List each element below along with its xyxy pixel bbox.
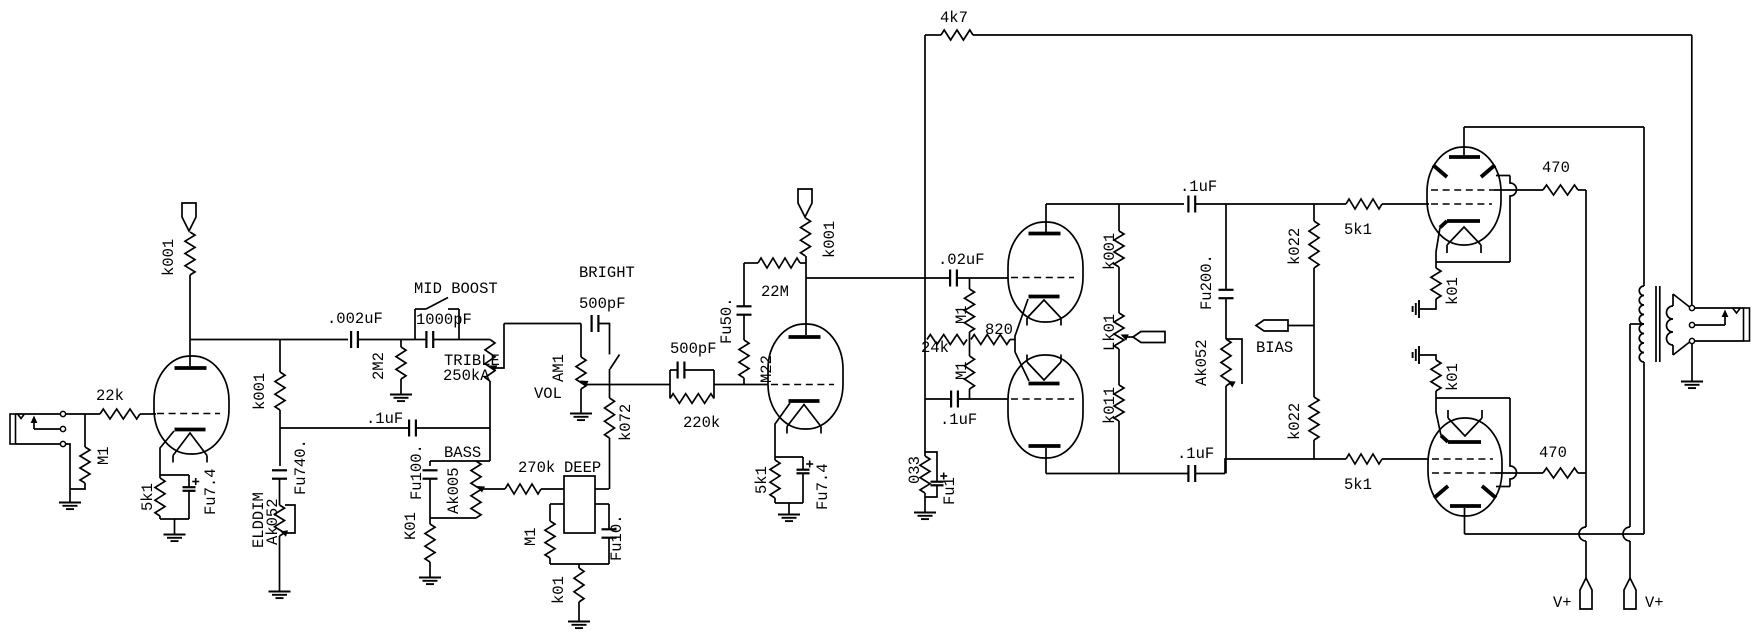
wire VOL to ground (580, 389, 582, 413)
V5 screen lead (1495, 472, 1543, 474)
beam plates (1434, 486, 1448, 498)
cathode bar (1029, 382, 1060, 386)
control grid dashed (1432, 458, 1493, 460)
resistor 1k5 V2 (774, 457, 776, 460)
potentiometer VOL 1MA (580, 324, 582, 358)
svg-text:5k1: 5k1 (753, 466, 771, 494)
svg-text:2M2: 2M2 (370, 352, 388, 380)
wire 100k slope node (279, 340, 281, 373)
plate bar (1029, 232, 1061, 236)
V2 cathode network top wire (775, 456, 803, 458)
svg-text:BIAS: BIAS (1256, 339, 1293, 357)
wire bass node (430, 460, 490, 462)
resistor 5k1 top grid stopper (1346, 199, 1382, 209)
wire 10k hook (1420, 299, 1436, 309)
OT core (1655, 286, 1657, 362)
resistor 220k upper (1313, 204, 1315, 221)
svg-text:033: 033 (906, 456, 924, 484)
resistor 270k deep feed (505, 484, 541, 494)
wire 270k to DEEP box (541, 488, 564, 490)
wire combo to V2 grid (714, 384, 768, 386)
svg-text:.1uF: .1uF (1177, 445, 1214, 463)
svg-text:k001: k001 (821, 221, 839, 258)
svg-text:Fu10.: Fu10. (608, 514, 626, 561)
resistor 820 tail (971, 335, 1010, 345)
capacitor 1uF tail bypass (925, 452, 937, 482)
svg-text:V+: V+ (1645, 594, 1664, 612)
power tube V4 (1427, 147, 1501, 245)
V5 plate lead (1464, 508, 1466, 534)
capacitor 4.7uF V1 cathode bypass (188, 475, 190, 487)
capacitor .05uF (743, 315, 745, 340)
V3b cathode lead (1015, 352, 1029, 381)
screen grid dashed (1432, 472, 1495, 474)
V2 plate lead (805, 256, 807, 335)
svg-text:1000pF: 1000pF (416, 311, 472, 329)
triode V3b phase inverter bottom (1008, 355, 1083, 458)
svg-text:k011: k011 (1101, 387, 1119, 424)
wire 1000pF to treble (456, 339, 490, 341)
svg-text:M1: M1 (953, 361, 971, 380)
plate bar (1449, 155, 1480, 159)
feedback wire to output jack (973, 34, 1692, 36)
wire 5k1 to V5 grid (1382, 458, 1429, 460)
V+ connector screens (1580, 578, 1592, 609)
V2 cathode bottom wire (774, 498, 776, 503)
svg-text:k022: k022 (1286, 228, 1304, 265)
resistor 270k mixer (605, 398, 615, 438)
wire 330 to ground (924, 493, 926, 512)
grid dashed line (157, 413, 220, 415)
triode V1 (154, 356, 229, 454)
capacitor 500pF bright (590, 315, 592, 332)
wire bias chain top (1225, 204, 1227, 289)
resistor 330 tail bottom (920, 456, 930, 493)
svg-text:DEEP: DEEP (564, 459, 601, 477)
resistor 1k5 V1 cathode (155, 478, 165, 516)
svg-text:Fu740.: Fu740. (292, 439, 310, 495)
cathode bar (1447, 219, 1480, 223)
svg-text:k001: k001 (1101, 233, 1119, 270)
heater filament (1027, 362, 1061, 380)
capacitor .002uF coupling (350, 331, 352, 348)
resistor 1M deep (549, 504, 551, 521)
wire 270k to DEEP (609, 438, 611, 489)
resistor 110k PI plate bottom (1114, 385, 1124, 421)
resistor 100k V1 plate load (185, 232, 195, 275)
capacitor .01uF deep (608, 504, 610, 529)
wire .02uF to V3a grid (957, 277, 1008, 279)
svg-text:K01: K01 (402, 512, 420, 540)
svg-text:4k7: 4k7 (940, 9, 968, 27)
resistor 220k parallel bottom (670, 394, 714, 404)
OT center tap (1630, 323, 1644, 325)
V3a plate lead (1045, 204, 1047, 232)
V1 plate lead (189, 275, 191, 366)
input jack J1 plug body (10, 414, 16, 444)
feedback bus vertical (924, 35, 926, 456)
V5 cathode lead (1436, 398, 1441, 436)
svg-text:Lk01: Lk01 (1101, 314, 1119, 351)
resistor 1M PI bottom (969, 340, 971, 357)
OT primary top lead (1643, 127, 1645, 286)
resistor 10k deep (578, 564, 580, 568)
wire MIDDLE to ground (279, 536, 281, 591)
heater filament (787, 405, 821, 427)
V1 cathode network top wire (160, 474, 189, 476)
V1 cathode network bottom wire (159, 516, 161, 519)
wire .1uF line PI (925, 398, 951, 400)
wire to .047uF (279, 428, 281, 466)
switch MID BOOST (414, 309, 416, 340)
wire V2 plate output (806, 277, 949, 279)
svg-text:Fu50.: Fu50. (718, 297, 736, 344)
resistor 2M2 to ground (400, 340, 402, 348)
control grid dashed (1431, 203, 1492, 205)
resistor 470 screen top (1543, 185, 1578, 195)
DEEP switch box (564, 476, 595, 533)
svg-text:Ak005: Ak005 (445, 467, 463, 514)
ground MIDDLE (269, 591, 291, 593)
V3b plate lead (1045, 448, 1047, 474)
potentiometer 250kA bias (1221, 339, 1231, 386)
svg-text:Fu200.: Fu200. (1198, 254, 1216, 310)
secondary to jack top (1673, 294, 1690, 307)
potentiometer BASS 500kA (471, 461, 481, 518)
hop over screen line (1510, 176, 1517, 263)
svg-text:500pF: 500pF (579, 295, 626, 313)
V4 beam plate tie (1436, 261, 1510, 263)
input jack tip notch (18, 415, 24, 419)
wire 5k1 to V4 grid (1382, 203, 1429, 205)
grid dashed line (771, 384, 834, 386)
wire DEEP lower-right to .01uF (595, 503, 609, 505)
TREBLE wiper (489, 365, 497, 371)
svg-text:M1: M1 (522, 527, 540, 546)
svg-text:5k1: 5k1 (1344, 476, 1372, 494)
wire bright switch to 270k (609, 385, 611, 399)
triode V2 (768, 324, 843, 429)
wire 10k hook (1420, 355, 1436, 360)
V4 plate line to OT (1464, 126, 1644, 128)
svg-text:5k1: 5k1 (139, 483, 157, 511)
resistor 22M vertical (739, 340, 749, 378)
svg-text:k022: k022 (1286, 403, 1304, 440)
plate bar (1450, 504, 1481, 508)
resistor 4k7 feedback (941, 30, 973, 40)
svg-text:VOL: VOL (534, 385, 562, 403)
beam plates (1433, 165, 1447, 177)
input jack tip arrow (31, 416, 38, 424)
OT secondary winding (1672, 294, 1674, 306)
PI top rail (1046, 203, 1184, 205)
resistor 1M PI top (969, 278, 971, 289)
ground tail (914, 512, 936, 514)
svg-text:BRIGHT: BRIGHT (579, 264, 635, 282)
ground V2 cathode (788, 503, 790, 514)
capacitor .02uF PI input (949, 270, 951, 287)
wire DEEP lower-left to 1M (550, 503, 564, 505)
capacitor .1uF PI top output (1187, 196, 1189, 213)
ground output jack (1681, 381, 1703, 383)
wire bottom contact to ground (66, 444, 70, 502)
wire middle contact arrow (1695, 324, 1725, 326)
wire 22k to V1 grid (140, 413, 156, 415)
V+ connector plates (1624, 578, 1636, 609)
parallel right leg (713, 370, 715, 399)
heater filament (1447, 227, 1481, 245)
svg-text:k001: k001 (251, 373, 269, 410)
connector flag 10kL (1133, 332, 1165, 343)
svg-text:220k: 220k (683, 414, 720, 432)
wire treble wiper to VOL top (504, 323, 581, 325)
wire 100k to 10kL (1118, 267, 1120, 313)
ground 10K (419, 577, 441, 579)
heater filament (1448, 418, 1482, 436)
V5 plate line to OT (1465, 533, 1645, 535)
ground V5 cathode sideways (1418, 346, 1420, 364)
wire 100k to .1uF line (279, 410, 281, 428)
connector flag BIAS (1256, 320, 1288, 331)
V3a cathode lead (1015, 299, 1028, 352)
output jack contact circles (1689, 305, 1694, 310)
resistor 10k V4 cathode (1431, 268, 1441, 299)
svg-text:24k: 24k (921, 339, 949, 357)
svg-text:470: 470 (1542, 159, 1570, 177)
wire top contact to plug (1695, 307, 1744, 309)
OT primary bottom lead (1643, 362, 1645, 534)
svg-text:820: 820 (985, 321, 1013, 339)
power tube V5 (1428, 418, 1502, 516)
cathode bar (1448, 440, 1481, 444)
svg-text:500pF: 500pF (670, 340, 717, 358)
capacitor .047uF middle (272, 469, 287, 471)
svg-text:Fu7.4: Fu7.4 (814, 463, 832, 510)
V2 cathode lead (775, 403, 790, 457)
svg-text:.02uF: .02uF (938, 251, 985, 269)
grid dashed line (1011, 277, 1074, 279)
resistor 100k tone slope (275, 372, 285, 410)
VOL wiper (580, 381, 589, 388)
plate bar (1029, 444, 1061, 448)
grid dashed line (1011, 398, 1074, 400)
svg-text:.1uF: .1uF (366, 410, 403, 428)
input jack contact circles (60, 411, 65, 416)
wire bass bottom (430, 517, 476, 519)
wire 10kL to 110k (1118, 349, 1120, 385)
svg-text:Fu7.4: Fu7.4 (202, 468, 220, 515)
resistor 1M input grid leak (80, 447, 90, 483)
potentiometer TREBLE 250kA (485, 340, 495, 382)
wire TREBLE bottom to bass node (489, 381, 491, 461)
svg-text:MID BOOST: MID BOOST (414, 280, 498, 298)
wire 2M2 to ground (400, 379, 402, 394)
svg-text:M1: M1 (953, 305, 971, 324)
ground VOL (570, 413, 592, 415)
svg-text:5k1: 5k1 (1344, 221, 1372, 239)
ground 2M2 (390, 394, 412, 396)
ground V1 cathode (174, 519, 176, 534)
svg-text:470: 470 (1539, 444, 1567, 462)
wire .002uF to node A (358, 339, 415, 341)
svg-text:250kA: 250kA (443, 367, 490, 385)
10kL wiper (1121, 334, 1129, 340)
B+ connector flag V2 (798, 189, 812, 217)
svg-text:k01: k01 (1444, 277, 1462, 305)
capacitor .001uF bass slope (429, 461, 431, 466)
jog bottom rail (1225, 459, 1346, 474)
OT primary winding lower (1639, 324, 1644, 362)
svg-text:Fu100.: Fu100. (408, 444, 426, 500)
svg-text:.002uF: .002uF (327, 310, 383, 328)
capacitor .1uF PI bottom output (1187, 465, 1189, 482)
output jack tip notch (1733, 309, 1740, 314)
svg-text:k001: k001 (160, 239, 178, 276)
resistor 22k grid stopper (100, 409, 140, 419)
wire jack sleeve to bottom contact (16, 443, 61, 445)
capacitor 1000pF mid boost (415, 339, 427, 341)
resistor 10k V5 cathode (1431, 360, 1441, 391)
wire bottom contact to plug (1695, 340, 1744, 342)
svg-text:22k: 22k (96, 387, 124, 405)
output jack plug body (1744, 308, 1750, 341)
ground 10k deep (568, 621, 590, 623)
svg-text:.1uF: .1uF (1180, 178, 1217, 196)
resistor 470 screen bottom (1543, 468, 1578, 478)
resistor 22M horizontal (758, 258, 800, 268)
potentiometer MIDDLE 250kA (275, 505, 285, 536)
svg-text:k072: k072 (617, 404, 635, 441)
cathode bar (175, 428, 206, 432)
svg-text:k01: k01 (1444, 363, 1462, 391)
capacitor .1uF PI lower input (950, 391, 952, 408)
wire BIAS to divider (1288, 325, 1314, 327)
secondary to jack bottom (1673, 342, 1690, 355)
wire bias pot down (1225, 386, 1227, 474)
svg-text:BASS: BASS (444, 444, 481, 462)
parallel 500pF 220k left leg (669, 370, 671, 399)
resistor 10K (425, 524, 435, 562)
OT primary winding upper (1639, 286, 1644, 324)
screen supply rail (1585, 190, 1587, 527)
capacitor 4.7uF V2 (802, 457, 804, 470)
node junction 1M top (84, 414, 86, 447)
hop over screen line (1510, 398, 1517, 487)
V4 cathode lead (1436, 228, 1440, 269)
svg-text:k01: k01 (550, 576, 568, 604)
BASS wiper (477, 486, 486, 493)
svg-text:V+: V+ (1553, 594, 1572, 612)
resistor 5k1 bottom grid stopper (1346, 454, 1382, 464)
wire .1uF bass line (280, 427, 409, 429)
wire arrow to middle contact (34, 428, 60, 430)
capacitor .1uF bass (408, 420, 410, 437)
heater filament (173, 433, 207, 456)
svg-text:Fu1: Fu1 (941, 477, 959, 505)
V4 screen lead (1494, 189, 1543, 191)
wire top contact to grid node (66, 413, 100, 415)
V4 plate lead (1463, 127, 1465, 156)
output jack tip arrow (1722, 310, 1729, 318)
wire jack tip to top contact (16, 413, 61, 415)
triode V3a phase inverter top (1008, 222, 1083, 322)
PI bottom plate line (1046, 473, 1188, 475)
wire DEEP right to 270k vertical (595, 488, 609, 490)
svg-text:.1uF: .1uF (940, 411, 977, 429)
V5 beam plate tie (1436, 397, 1510, 399)
svg-text:270k: 270k (518, 459, 555, 477)
potentiometer 10kL balance (1114, 313, 1124, 349)
plate bar (789, 335, 821, 339)
capacitor 500pF parallel top (670, 369, 678, 371)
wire V1 plate node (190, 339, 348, 341)
screen grid dashed (1431, 189, 1494, 191)
switch BRIGHT (610, 355, 620, 370)
capacitor .002uF bias (1219, 289, 1234, 291)
svg-text:M1: M1 (95, 446, 113, 465)
V1 cathode lead (160, 431, 174, 475)
resistor 100k PI plate top (1118, 204, 1120, 231)
resistor 220k lower (1309, 397, 1319, 440)
cathode bar (789, 399, 820, 403)
B+ connector flag V1 (182, 203, 196, 231)
wire 10K to ground (429, 562, 431, 577)
wire deep bottom (550, 563, 609, 565)
svg-text:AM1: AM1 (550, 354, 568, 382)
heater filament (1027, 300, 1061, 318)
ground input jack (59, 502, 81, 504)
wire jack to ground (1691, 344, 1693, 381)
wire 110k to bottom rail (1118, 421, 1120, 474)
svg-text:M22: M22 (758, 355, 776, 383)
wire bright cap to switch (598, 324, 609, 355)
wire 1M bottom hook (70, 483, 85, 489)
ground V4 cathode sideways (1418, 300, 1420, 318)
wire 220k junction (1313, 268, 1315, 397)
svg-text:22M: 22M (761, 283, 789, 301)
resistor 24k tail feed (927, 335, 967, 345)
svg-text:Ak052: Ak052 (1193, 339, 1211, 386)
resistor 100k V2 plate load (801, 218, 811, 256)
plate bar (175, 366, 207, 370)
cathode bar (1029, 295, 1060, 299)
